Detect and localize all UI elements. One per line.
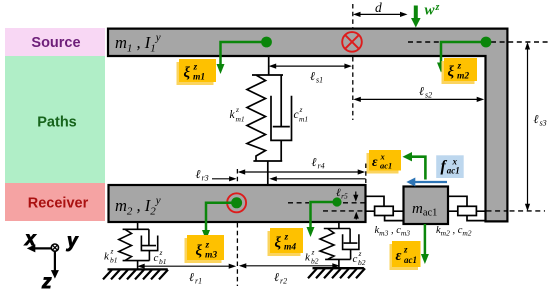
response node 2 (green dot on beam1 right): [481, 37, 492, 48]
svg-text:ℓs1: ℓs1: [310, 69, 323, 85]
label k_m2 c_m2: [436, 225, 472, 238]
svg-text:km3 , cm3: km3 , cm3: [375, 225, 411, 238]
beam m1 with right column (source mass, L-shape): [108, 29, 507, 222]
label k_m3 c_m3: [375, 225, 411, 238]
svg-text:c: c: [154, 252, 159, 264]
svg-text:c: c: [353, 253, 358, 265]
svg-text:m3: m3: [205, 251, 217, 261]
svg-text:z: z: [205, 241, 210, 251]
svg-text:z: z: [457, 62, 462, 72]
svg-text:z: z: [403, 245, 408, 255]
svg-text:ℓr2: ℓr2: [274, 270, 287, 286]
svg-text:ℓr4: ℓr4: [312, 155, 325, 171]
svg-text:z: z: [311, 248, 315, 257]
svg-text:ℓr3: ℓr3: [196, 167, 209, 183]
dimension l_s2: [353, 84, 484, 102]
force arrow w^z: [411, 2, 440, 28]
response node 3 (circled green dot on beam2): [227, 193, 246, 212]
label c_b2: [353, 249, 366, 267]
label eps_ac1^x: [367, 150, 402, 174]
svg-text:z: z: [435, 2, 440, 13]
svg-text:z: z: [284, 233, 289, 243]
force arrow f_ac1^x (blue): [406, 178, 447, 187]
dashed actuator centerline: [323, 210, 545, 212]
label xi_m4: [268, 228, 304, 256]
spring-damper k_m3 c_m3 (beam2 to m_ac1): [366, 196, 403, 220]
label xi_m3: [185, 235, 225, 263]
sensor arrow xi_m4: [307, 202, 338, 237]
spring k_m1 (between beams): [247, 56, 283, 161]
axis x arrow: [24, 229, 51, 252]
response node 4 (green dot on beam2): [332, 197, 341, 206]
label xi_m1: [177, 59, 217, 85]
dimension d: [353, 0, 408, 17]
svg-text:z: z: [235, 105, 239, 114]
svg-text:Paths: Paths: [37, 115, 77, 131]
svg-text:m2: m2: [457, 72, 469, 82]
svg-text:ac1: ac1: [404, 255, 417, 265]
label f_ac1^x: [436, 155, 464, 178]
paths band: [5, 56, 105, 183]
label k_m1: [230, 105, 245, 124]
ground (left): [103, 269, 168, 279]
dimension l_s3: [525, 42, 547, 211]
svg-text:ξ: ξ: [448, 64, 455, 80]
dashed centerline through beam1 sensors: [408, 41, 548, 43]
dashed vertical at beam2 right edge: [365, 164, 367, 184]
svg-text:b2: b2: [358, 258, 366, 267]
response node 1 (green dot on beam1): [261, 37, 272, 48]
svg-text:m4: m4: [284, 243, 296, 253]
dashed centerline through beam2 sensors: [288, 202, 365, 204]
svg-text:z: z: [41, 272, 52, 291]
svg-text:ε: ε: [372, 154, 378, 169]
beam m2 (receiver mass): [109, 185, 366, 222]
dimension l_r4: [238, 155, 366, 175]
label c_m1: [294, 105, 309, 124]
svg-text:y: y: [66, 231, 79, 252]
spring-damper k_m2 c_m2 (m_ac1 to column): [448, 196, 486, 220]
sensor arrow xi_m2: [437, 42, 486, 73]
label eps_ac1^z: [390, 241, 421, 270]
svg-text:km2 , cm2: km2 , cm2: [436, 225, 472, 238]
svg-text:z: z: [159, 248, 163, 257]
axis y label: [66, 231, 79, 252]
svg-text:b1: b1: [159, 257, 167, 266]
svg-text:m1: m1: [193, 73, 205, 83]
svg-text:z: z: [299, 105, 303, 114]
svg-text:Source: Source: [31, 35, 80, 51]
sensor arrow xi_m1: [217, 42, 267, 74]
label m2 I2y: [115, 195, 161, 218]
svg-text:ℓs3: ℓs3: [534, 112, 547, 128]
damper c_m1 (between beams): [253, 75, 291, 185]
svg-text:ξ: ξ: [184, 65, 191, 81]
svg-text:w: w: [425, 3, 436, 19]
svg-text:z: z: [193, 63, 198, 73]
svg-text:ac1: ac1: [447, 166, 460, 176]
svg-text:ξ: ξ: [275, 235, 282, 251]
label m_ac1: [412, 201, 437, 219]
dashed vertical at response point 3: [236, 169, 238, 286]
svg-text:ac1: ac1: [380, 161, 392, 171]
svg-text:c: c: [294, 109, 299, 121]
svg-text:ℓr1: ℓr1: [189, 270, 202, 286]
svg-text:ξ: ξ: [196, 243, 203, 259]
sensor arrow xi_m3: [202, 203, 237, 240]
svg-text:z: z: [110, 247, 114, 256]
dimension l_r5 (outside arrows): [336, 187, 359, 220]
svg-text:Receiver: Receiver: [28, 196, 89, 212]
svg-text:b1: b1: [110, 256, 118, 265]
receiver band: [5, 183, 105, 221]
label k_b2: [305, 248, 319, 266]
label m1 I1y: [115, 32, 161, 55]
dimension l_r3 (outside arrows): [196, 167, 366, 183]
axis z arrow: [41, 252, 59, 291]
svg-text:z: z: [358, 249, 362, 258]
dimension l_r2: [239, 263, 340, 285]
svg-text:m1: m1: [236, 115, 245, 124]
svg-text:ℓs2: ℓs2: [419, 84, 432, 100]
dimension l_r1: [137, 264, 236, 286]
actuator arrow eps_ac1^x: [403, 152, 426, 180]
excitation symbol (circled X) on beam1: [342, 32, 362, 52]
coordinate frame origin (y into page): [51, 244, 58, 251]
svg-text:d: d: [375, 0, 382, 15]
spring k_b1 + damper c_b1 (receiver to ground, left): [119, 222, 158, 269]
label k_b1: [104, 247, 118, 265]
label xi_m2: [442, 58, 478, 84]
ground (right): [308, 268, 365, 278]
spring k_b2 + damper c_b2 (receiver to ground, right): [320, 222, 359, 268]
svg-text:ε: ε: [396, 248, 402, 264]
svg-text:m1: m1: [299, 115, 308, 124]
label c_b1: [154, 248, 167, 266]
dimension l_s1: [269, 64, 352, 85]
svg-text:b2: b2: [311, 257, 319, 266]
dashed vertical at excitation point: [352, 4, 354, 120]
svg-text:x: x: [24, 229, 37, 250]
source band: [5, 28, 105, 56]
mass m_ac1: [404, 187, 449, 225]
actuator arrow eps_ac1^z: [421, 224, 429, 264]
